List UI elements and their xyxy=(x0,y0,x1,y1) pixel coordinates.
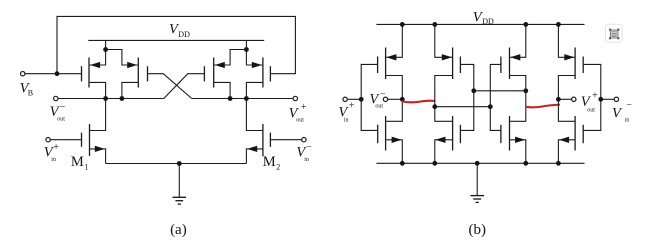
node right output / M5 drain xyxy=(228,96,233,101)
label (a) xyxy=(170,222,187,238)
node output4 b xyxy=(556,97,561,102)
wire top feedback loop VB xyxy=(57,16,295,73)
transistor MN1 NMOS stack1 xyxy=(378,116,403,163)
label Vout+ b xyxy=(581,91,598,114)
wire ground rail b xyxy=(376,162,584,164)
node gnd stack3 xyxy=(523,161,528,166)
wire red annotation 1 xyxy=(403,101,435,103)
svg-text:+: + xyxy=(301,102,307,113)
node tail junction xyxy=(177,161,182,166)
label Vin- b xyxy=(612,100,632,123)
wire Vin+ b xyxy=(347,98,361,100)
wire output Vout+ xyxy=(192,98,293,100)
node output3 tap xyxy=(523,88,528,93)
node VDD stub left xyxy=(103,47,108,52)
wire tail xyxy=(106,163,247,165)
transistor M4 inner-left PMOS (cross-coupled) xyxy=(106,50,148,99)
terminal Vin- b xyxy=(614,97,618,101)
transistor MN3 NMOS stack3 xyxy=(501,116,526,163)
wire red annotation 2 xyxy=(526,105,559,108)
node gnd stack2 xyxy=(432,161,437,166)
label Vin+ xyxy=(44,142,60,163)
node output1 b xyxy=(400,97,405,102)
transistor M2 NMOS xyxy=(246,99,270,164)
transistor M1 NMOS xyxy=(82,99,106,164)
wire VDD rail xyxy=(88,39,264,41)
node left output / M3 drain xyxy=(103,96,108,101)
wire stack3 gates column xyxy=(490,64,501,130)
svg-text:(a): (a) xyxy=(170,222,187,238)
wire gate M4 cross to right output xyxy=(148,74,192,99)
wire cross-couple gate2 to output3 xyxy=(474,90,526,92)
svg-text:M: M xyxy=(71,154,84,170)
svg-text:M: M xyxy=(263,154,276,170)
wire ground stub b xyxy=(476,163,478,195)
svg-text:V: V xyxy=(612,106,623,122)
transistor MN4 NMOS stack4 xyxy=(558,116,583,163)
svg-text:out: out xyxy=(587,107,595,113)
wire cross-couple gate3 to output2 xyxy=(435,106,491,108)
node Vin- junction b xyxy=(598,97,603,102)
wire gate M5 cross to left output xyxy=(164,74,205,99)
svg-text:−: − xyxy=(626,100,632,111)
node gate2 column xyxy=(471,88,476,93)
transistor M5 inner-right PMOS (cross-coupled) xyxy=(204,50,246,99)
terminal Vin- xyxy=(302,138,306,142)
node output2 tap xyxy=(432,104,437,109)
label Vin- xyxy=(296,142,312,163)
terminal Vout+ xyxy=(293,96,297,100)
node VDD stack1 xyxy=(400,22,405,27)
label VB xyxy=(20,81,33,98)
node left output / M4 drain xyxy=(120,96,125,101)
terminal Vin+ xyxy=(46,138,50,142)
label VDD xyxy=(169,22,190,40)
transistor M6 outer-right PMOS xyxy=(246,40,270,98)
transistor MP4 PMOS stack4 xyxy=(558,24,583,121)
transistor MN2 NMOS stack2 xyxy=(435,116,461,163)
transistor MP1 PMOS stack1 xyxy=(378,24,403,121)
node VDD stub right xyxy=(244,47,249,52)
svg-text:+: + xyxy=(592,91,598,102)
ground a xyxy=(173,197,187,204)
label Vout- b xyxy=(369,89,386,110)
node Vin+ junction b xyxy=(359,97,364,102)
terminal Vout- b xyxy=(383,97,387,101)
transistor M3 outer-left PMOS xyxy=(82,40,106,98)
node VB junction xyxy=(55,71,60,76)
watermark button icon xyxy=(606,24,623,42)
node VDD stack4 xyxy=(556,22,561,27)
svg-text:−: − xyxy=(380,89,386,100)
label M1 xyxy=(71,154,89,172)
svg-text:in: in xyxy=(51,157,56,163)
terminal Vout- xyxy=(54,96,58,100)
wire stack2 gates column xyxy=(460,64,473,130)
wire Vin+ to M1 gate xyxy=(50,139,81,141)
terminal Vout+ b xyxy=(572,97,576,101)
svg-text:out: out xyxy=(296,117,304,123)
wire VDD rail b xyxy=(376,23,584,25)
svg-text:out: out xyxy=(57,117,65,123)
ground b xyxy=(470,196,484,203)
node gnd stack1 xyxy=(400,161,405,166)
wire Vin- b xyxy=(601,98,614,100)
svg-text:in: in xyxy=(344,117,349,123)
label M2 xyxy=(263,154,281,172)
svg-text:B: B xyxy=(28,88,33,97)
node gnd stack4 xyxy=(556,161,561,166)
wire Vout+ b xyxy=(558,98,571,100)
label Vin+ b xyxy=(338,100,355,123)
label VDD b xyxy=(473,10,494,27)
svg-text:−: − xyxy=(60,102,66,113)
svg-text:in: in xyxy=(625,117,630,123)
terminal Vin+ b xyxy=(343,97,347,101)
wire Vout- b xyxy=(388,98,403,100)
svg-text:2: 2 xyxy=(276,163,280,172)
svg-text:1: 1 xyxy=(84,163,88,172)
transistor MP3 PMOS stack3 xyxy=(501,24,526,121)
wire stack1 gates input column xyxy=(361,64,378,130)
wire VB input xyxy=(25,73,82,75)
wire output Vout- xyxy=(58,98,164,100)
wire ground stub a xyxy=(178,164,180,198)
node right output / M6 drain xyxy=(244,96,249,101)
terminal VB xyxy=(21,72,25,76)
svg-text:out: out xyxy=(375,104,383,110)
label Vout+ xyxy=(289,102,307,123)
label Vout- xyxy=(50,102,66,122)
transistor MP2 PMOS stack2 xyxy=(435,24,461,121)
svg-text:+: + xyxy=(349,100,355,111)
svg-text:in: in xyxy=(304,157,309,163)
node ground stub junction b xyxy=(475,161,480,166)
node VDD stack3 xyxy=(523,22,528,27)
label (b) xyxy=(469,222,487,238)
node VDD stack2 xyxy=(432,22,437,27)
node gate3 column xyxy=(488,104,493,109)
svg-text:+: + xyxy=(53,142,59,153)
svg-text:DD: DD xyxy=(178,30,190,39)
svg-text:(b): (b) xyxy=(469,222,487,238)
wire M2 gate to Vin- xyxy=(270,139,301,141)
svg-text:DD: DD xyxy=(482,17,494,26)
svg-text:−: − xyxy=(306,142,312,153)
wire stack4 gates input column xyxy=(583,64,601,130)
